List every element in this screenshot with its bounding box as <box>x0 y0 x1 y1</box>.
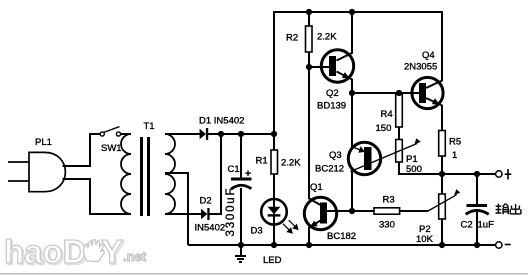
svg-text:2.2K: 2.2K <box>317 32 337 43</box>
wire Q3 collector down to Q1 base node <box>351 171 353 213</box>
wire Q1 base <box>327 210 352 212</box>
wire node down to Q3 emitter <box>351 93 353 147</box>
diode D2 IN5402 <box>195 196 226 234</box>
svg-text:BC182: BC182 <box>327 231 356 242</box>
svg-text:.net: .net <box>123 249 147 264</box>
label output (Chinese shu-chu) <box>496 204 521 215</box>
wire R5 bottom to +rail <box>441 156 443 174</box>
svg-text:Q1: Q1 <box>310 182 323 193</box>
watermark haoDIY.net <box>4 233 147 272</box>
wire 0V bottom rail <box>188 244 496 246</box>
wire transformer center tap to 0V rail <box>165 173 188 245</box>
page bottom edge line <box>0 273 528 274</box>
svg-text:IN5402: IN5402 <box>195 223 226 234</box>
capacitor C2 1uF <box>461 204 495 231</box>
svg-text:330: 330 <box>379 220 395 231</box>
wire left vertical from top rail to rectifier node <box>273 11 275 134</box>
wire Q2 collector to top rail <box>337 11 353 61</box>
svg-text:C2: C2 <box>461 220 473 231</box>
wire P1 bottom to +out rail <box>399 162 496 174</box>
svg-text:R1: R1 <box>256 156 268 167</box>
wire R1 bottom to D3 top <box>273 174 275 200</box>
wire Q2 emitter down to node <box>337 72 353 95</box>
svg-text:R5: R5 <box>449 137 461 148</box>
svg-text:500: 500 <box>406 164 422 175</box>
svg-text:D3: D3 <box>251 226 263 237</box>
ground <box>235 245 246 262</box>
svg-text:PL1: PL1 <box>35 137 52 148</box>
wire Q1 collector diagonal <box>309 199 321 206</box>
svg-text:Q4: Q4 <box>422 50 435 61</box>
wire Q1 emitter diagonal down to 0V rail <box>309 221 321 246</box>
wire D2 cathode riser to rectifier node <box>210 134 221 214</box>
wire C2 top lead <box>476 174 478 205</box>
svg-text:2.2K: 2.2K <box>281 158 301 169</box>
svg-text:1uF: 1uF <box>478 220 495 231</box>
wire switch left stub <box>89 133 101 135</box>
svg-text:2N3055: 2N3055 <box>404 62 437 73</box>
wire C2 bottom lead <box>476 211 478 245</box>
LED D3 emission arrows <box>283 220 298 233</box>
svg-text:BD139: BD139 <box>317 101 346 112</box>
svg-text:150: 150 <box>376 123 392 134</box>
wire D3 bottom to 0V rail <box>273 225 275 245</box>
transistor Q4 2N3055 <box>404 50 443 109</box>
transistor Q3 BC212 with P1 wiper arrow <box>315 138 421 174</box>
node - output terminal <box>496 242 502 248</box>
transistor Q2 BD139 <box>317 50 354 112</box>
wire Q2 emitter node to Q4 base <box>351 92 420 94</box>
wire Q4 collector from top rail <box>426 11 442 88</box>
wire R3 to P2 wiper tail <box>400 210 428 212</box>
wire secondary top to D1 anode <box>165 133 200 135</box>
wire Q2 base <box>308 66 330 68</box>
svg-text:D1 IN5402: D1 IN5402 <box>199 116 244 127</box>
plug PL1 <box>8 152 65 191</box>
svg-text:1: 1 <box>452 150 457 161</box>
resistor R1 <box>256 150 302 174</box>
potentiometer P2 with wiper arrow <box>416 189 460 245</box>
svg-text:R4: R4 <box>381 109 393 120</box>
wire Q4 emitter to R5 <box>426 98 442 131</box>
svg-text:SW1: SW1 <box>101 143 122 154</box>
potentiometer P1 <box>396 140 422 176</box>
diode D1 IN5402 <box>199 116 244 141</box>
switch SW1 <box>100 127 121 136</box>
transistor Q1 BC182 <box>304 182 356 242</box>
wire D1 cathode to node x274 <box>208 133 275 135</box>
wire node x274 down to R1 <box>273 134 275 151</box>
wire plug upper to switch vertical <box>63 134 91 166</box>
svg-text:haoD: haoD <box>4 233 87 270</box>
wire R2 top stub <box>308 11 310 27</box>
wire Q1 base node to R3 <box>352 210 375 212</box>
LED D3 <box>251 199 287 266</box>
svg-text:R2: R2 <box>286 33 298 44</box>
wire R2 bottom to Q2 base node continuing to Q1 collector <box>308 52 310 199</box>
resistor R5 <box>439 131 461 162</box>
node + output terminal <box>496 171 502 177</box>
capacitor C1 3300uF <box>225 164 252 237</box>
svg-text:Q3: Q3 <box>329 150 342 161</box>
svg-text:10K: 10K <box>416 234 434 245</box>
wire switch right to primary coil <box>120 133 131 135</box>
svg-text:BC212: BC212 <box>315 164 344 175</box>
transformer T1 primary coil <box>121 134 131 214</box>
svg-text:T1: T1 <box>144 121 155 132</box>
wire P2 top to +rail <box>441 174 443 195</box>
transformer T1 secondary coil <box>165 134 175 214</box>
svg-text:R3: R3 <box>383 194 395 205</box>
transformer T1 core <box>140 137 143 216</box>
resistor R2 <box>286 26 337 52</box>
wire R4 bottom to P1 top <box>398 127 400 140</box>
svg-text:C1: C1 <box>228 164 240 175</box>
wire top rail <box>273 11 443 13</box>
wire P2 bottom to 0V rail <box>441 219 443 245</box>
wire C1 bottom lead <box>240 188 242 245</box>
wire secondary bottom to D2 anode <box>165 213 201 215</box>
wire R4 top stub <box>398 92 400 95</box>
resistor R3 <box>374 194 400 230</box>
svg-text:3300uF: 3300uF <box>225 187 237 237</box>
svg-text:D2: D2 <box>200 196 212 207</box>
wire plug lower to primary bottom <box>63 179 132 214</box>
svg-text:Q2: Q2 <box>326 88 339 99</box>
resistor R4 <box>376 95 403 135</box>
wire C1 top lead <box>240 134 242 178</box>
svg-text:LED: LED <box>263 255 282 266</box>
